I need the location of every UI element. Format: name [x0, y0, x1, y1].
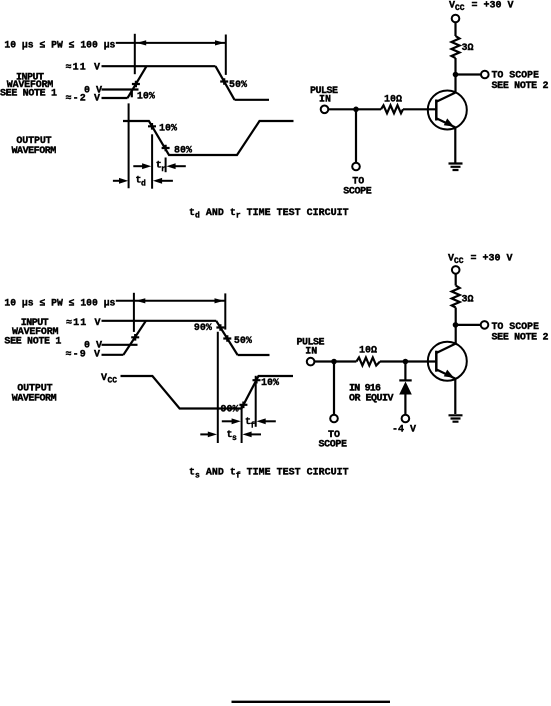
wire resistor to base bottom [380, 360, 436, 362]
resistor R 3ohm [452, 36, 460, 58]
wire 11V level line [102, 65, 216, 67]
wire PW dimension line top [116, 42, 226, 44]
arrow PW left bottom [136, 298, 146, 303]
resistor R 10ohm top [381, 105, 403, 113]
terminal TO SCOPE input top [352, 163, 360, 171]
svg-text:-4 V: -4 V [392, 424, 416, 435]
wire measure lineB bottom [241, 406, 243, 444]
wire scope tap down bottom [333, 362, 335, 415]
wire VCC to resistor bottom [455, 274, 457, 286]
svg-text:80%: 80% [174, 146, 192, 157]
wire measure line1 [128, 103, 130, 188]
wire input rising edge [128, 66, 147, 98]
svg-text:SCOPE: SCOPE [343, 186, 372, 197]
wire input low right bottom [238, 354, 270, 356]
wire input low right [235, 99, 270, 101]
ground bottom [449, 415, 463, 421]
tick plus rising edge bottom [131, 334, 139, 341]
svg-text:IN: IN [305, 347, 317, 358]
svg-text:10Ω: 10Ω [384, 95, 402, 106]
wire resistor to base [403, 108, 436, 110]
tick plus 90% falling bottom [216, 324, 224, 331]
arrow PW right bottom [215, 298, 225, 303]
arrow tr right [166, 163, 175, 169]
svg-text:3Ω: 3Ω [462, 295, 474, 306]
svg-text:10%: 10% [261, 378, 279, 389]
svg-text:10 μs ≤ PW ≤ 100 μs: 10 μs ≤ PW ≤ 100 μs [4, 298, 115, 309]
wire output waveform bottom [121, 376, 294, 409]
terminal VCC bottom [452, 266, 460, 274]
svg-text:≈-2 V: ≈-2 V [66, 93, 101, 104]
wire scope tap down [355, 109, 357, 162]
wire pulse to resistor [328, 108, 381, 110]
resistor R 3ohm bottom [452, 286, 460, 308]
wire PW boundary left vertical [134, 34, 136, 74]
wire PW dimension line bottom [116, 300, 226, 302]
svg-text:= +30 V: = +30 V [471, 254, 513, 265]
arrow tf left [222, 420, 236, 422]
node scope tap top [353, 107, 359, 113]
svg-text:90%: 90% [194, 323, 212, 334]
tick vertical at 0V crossing [131, 91, 133, 97]
tick plus on rising edge [132, 81, 140, 88]
arrow tr left [133, 165, 146, 167]
tick plus output 90% bottom [239, 402, 247, 409]
arrow PW right [215, 40, 225, 45]
wire -9V level line bottom [102, 354, 124, 356]
tick plus output 80% [162, 145, 170, 152]
node diode tap [403, 359, 409, 365]
svg-text:SEE NOTE 2: SEE NOTE 2 [492, 332, 549, 343]
transistor Q1 [428, 91, 467, 130]
node scope tap bottom [331, 359, 337, 365]
node collector junction bottom [453, 322, 459, 328]
arrow td right [153, 178, 162, 184]
svg-text:10%: 10% [159, 123, 177, 134]
wire 0V level line [102, 88, 139, 90]
svg-text:td AND tr TIME TEST CIRCUIT: td AND tr TIME TEST CIRCUIT [189, 208, 349, 221]
transistor Q2 [428, 342, 467, 381]
footer rule [232, 701, 391, 703]
terminal pulse in top [321, 106, 329, 114]
wire node to diode [404, 362, 406, 382]
arrow ts right [242, 432, 251, 438]
svg-text:50%: 50% [229, 80, 247, 91]
svg-text:ts AND tf TIME TEST CIRCUIT: ts AND tf TIME TEST CIRCUIT [189, 468, 349, 481]
svg-text:r: r [161, 165, 166, 174]
wire input falling edge bottom [216, 321, 237, 355]
wire -2V level line / input low left [102, 97, 128, 99]
svg-text:d: d [141, 180, 146, 189]
svg-text:10Ω: 10Ω [359, 346, 377, 357]
wire measure lineA bottom [217, 332, 219, 443]
svg-text:OR EQUIV: OR EQUIV [349, 394, 394, 405]
svg-text:CC: CC [454, 257, 464, 266]
svg-text:10%: 10% [137, 91, 155, 102]
arrow tf right [257, 418, 266, 424]
wire measure line3 [165, 158, 167, 173]
svg-text:SEE NOTE 1: SEE NOTE 1 [4, 336, 61, 347]
terminal TO SCOPE collector bottom [481, 321, 489, 329]
svg-text:V: V [101, 373, 107, 384]
wire pulse to resistor bottom [314, 360, 356, 362]
svg-text:TO SCOPE: TO SCOPE [492, 322, 540, 333]
svg-text:≈11 V: ≈11 V [66, 62, 101, 73]
arrow td left [113, 180, 123, 182]
svg-text:50%: 50% [234, 336, 252, 347]
wire measure lineC bottom [255, 376, 257, 427]
wire emitter to ground [454, 127, 456, 162]
terminal pulse in bottom [307, 358, 315, 366]
wire measure line2 [151, 134, 153, 188]
svg-text:SEE NOTE 2: SEE NOTE 2 [492, 81, 549, 92]
wire output waveform top [123, 121, 294, 155]
terminal TO SCOPE collector [481, 71, 489, 79]
node collector junction [453, 72, 459, 78]
wire input falling edge [216, 66, 235, 100]
wire node to scope terminal [456, 73, 482, 75]
svg-text:SCOPE: SCOPE [319, 439, 348, 450]
wire resistor to collector [454, 58, 456, 93]
svg-text:s: s [232, 434, 237, 443]
wire node to scope terminal bottom [456, 324, 481, 326]
svg-text:TO SCOPE: TO SCOPE [492, 71, 540, 82]
wire diode to terminal [404, 395, 406, 415]
svg-text:CC: CC [108, 377, 118, 386]
resistor R 10ohm bottom [356, 358, 380, 366]
wire PW boundary right vertical [225, 35, 227, 75]
svg-text:f: f [250, 421, 255, 430]
terminal TO SCOPE input bottom [330, 415, 338, 423]
svg-text:≈-9 V: ≈-9 V [66, 349, 101, 360]
tick plus 50% falling [220, 78, 228, 85]
wire 11V level line bottom [102, 320, 217, 322]
terminal VCC [452, 15, 460, 23]
tick plus output 10% [148, 123, 156, 130]
tick plus 50% falling bottom [223, 335, 231, 342]
wire input rising edge bottom [123, 321, 145, 355]
svg-text:= +30 V: = +30 V [472, 1, 514, 12]
diode D1 1N916 [399, 379, 411, 381]
svg-text:WAVEFORM: WAVEFORM [12, 146, 57, 157]
wire PW boundary right vertical bottom [224, 293, 226, 329]
svg-text:3Ω: 3Ω [462, 43, 474, 54]
wire VCC to resistor [454, 22, 456, 36]
svg-text:10 μs ≤ PW ≤ 100 μs: 10 μs ≤ PW ≤ 100 μs [4, 40, 115, 51]
svg-text:SEE NOTE 1: SEE NOTE 1 [0, 89, 57, 100]
svg-text:WAVEFORM: WAVEFORM [12, 394, 57, 405]
wire resistor to collector bottom [455, 308, 457, 344]
svg-text:≈11 V: ≈11 V [66, 318, 101, 329]
arrow ts left [200, 433, 211, 435]
svg-text:IN: IN [319, 95, 331, 106]
svg-text:CC: CC [455, 4, 465, 13]
tick plus output 10% bottom [253, 377, 261, 384]
wire emitter to ground bottom [454, 379, 456, 414]
wire PW boundary left vertical bottom [133, 293, 135, 332]
terminal -4V [402, 415, 410, 423]
arrow PW left [137, 40, 147, 45]
wire 0V level line bottom [102, 344, 138, 346]
svg-text:90%: 90% [221, 405, 239, 416]
ground top [449, 164, 463, 171]
